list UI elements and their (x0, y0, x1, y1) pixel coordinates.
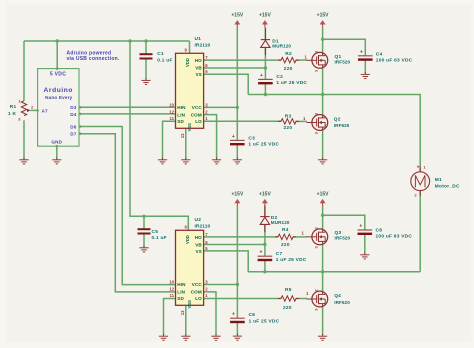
ground (Q2 source) (318, 158, 327, 164)
svg-text:C8: C8 (376, 227, 383, 233)
U2 pin numbers (169, 225, 208, 316)
ground (Arduino) (52, 158, 61, 164)
svg-text:+15V: +15V (259, 13, 271, 19)
ground (U2 COM) (211, 334, 220, 340)
junction U2 5V / C5 (142, 215, 145, 218)
svg-text:1 uF 25 VDC: 1 uF 25 VDC (249, 318, 280, 324)
wire Arduino D7 to U2 LIN (79, 134, 176, 292)
svg-text:via USB connection.: via USB connection. (67, 56, 120, 62)
wire +15V to D2 cathode (264, 206, 266, 216)
svg-text:COM: COM (191, 112, 202, 117)
ground (R1) (19, 158, 28, 164)
svg-text:LIN: LIN (177, 112, 185, 117)
wire C2 bottom to bridge A rail (264, 83, 266, 94)
svg-text:U1: U1 (195, 36, 202, 42)
svg-text:HO: HO (195, 235, 202, 240)
svg-text:D4: D4 (70, 112, 77, 117)
wire U1 LO to R3 (204, 120, 281, 122)
wire U1 VS to bridge A rail (204, 74, 249, 94)
junction 5V rail / C1 (144, 39, 147, 42)
svg-text:D6: D6 (70, 124, 77, 129)
wire tap to C8 (323, 215, 365, 230)
wire bridge A rail to motor + (248, 95, 420, 172)
capacitor C8 (358, 224, 373, 234)
power +15V (U1 VCC) (231, 13, 243, 28)
svg-text:0.1 uF: 0.1 uF (157, 57, 172, 63)
wire C7 bottom to bridge B rail (264, 260, 266, 272)
svg-text:Nano Every: Nano Every (45, 95, 73, 100)
capacitor C7 (258, 250, 273, 260)
svg-text:2: 2 (415, 194, 417, 198)
wire U1 HO to R2 (204, 59, 281, 61)
wire C4 bottom to GND (364, 60, 366, 73)
svg-text:LIN: LIN (177, 289, 185, 294)
wire bridge B rail (248, 271, 420, 273)
svg-text:10: 10 (169, 102, 174, 107)
svg-text:+: + (359, 224, 362, 230)
junction C2 / bridge A rail (264, 93, 267, 96)
wire U2 COM to GND (204, 292, 216, 335)
junction 5V rail / Arduino feed (56, 39, 59, 42)
wire D2 anode to VB node to C7 top (264, 224, 266, 256)
op-amp driver U2 IR2110 body (176, 230, 204, 305)
U1 pin numbers (169, 48, 208, 139)
Arduino Nano Every sheet (38, 69, 79, 147)
ground (U2 VSS) (181, 334, 190, 340)
ground (U1 VSS) (181, 158, 190, 164)
ground (C5) (139, 246, 148, 252)
svg-text:1 K: 1 K (8, 111, 17, 117)
svg-text:5 VDC: 5 VDC (50, 72, 66, 78)
svg-text:HO: HO (195, 58, 202, 63)
wire U2 VCC to +15V node (204, 284, 238, 286)
wire U2 VS to bridge B rail (204, 251, 249, 272)
junction 5V rail / U2 feed (128, 39, 131, 42)
wire motor - down to bridge B rail (419, 191, 421, 272)
capacitor C2 (258, 73, 273, 83)
svg-text:HIN: HIN (177, 282, 186, 287)
svg-text:R2: R2 (285, 51, 292, 57)
svg-text:VS: VS (195, 72, 201, 77)
wire C1 bottom to GND (145, 59, 147, 80)
svg-text:SD: SD (177, 119, 184, 124)
svg-text:+: + (260, 73, 263, 79)
svg-text:Arduino: Arduino (44, 87, 73, 94)
svg-text:D7: D7 (70, 132, 77, 137)
svg-text:+: + (417, 164, 420, 170)
svg-text:VCC: VCC (192, 282, 203, 287)
svg-text:220: 220 (283, 305, 292, 311)
wire U2 SD to GND (164, 299, 176, 336)
transistor Q2 IRF520 (307, 112, 328, 134)
ground (U1 SD) (158, 158, 167, 164)
op-amp driver U1 IR2110 body (176, 53, 204, 128)
U2 pin names (177, 235, 202, 309)
svg-text:220: 220 (284, 125, 293, 131)
wire tap to C4 (323, 39, 366, 56)
svg-text:IRF520: IRF520 (334, 300, 350, 305)
wire U1 VB to bootstrap node (204, 67, 266, 69)
transistor Q3 IRF520 (307, 226, 328, 248)
svg-text:11: 11 (169, 116, 174, 121)
wire U1 VSS pin 13 to GND (185, 128, 187, 158)
wire Q1 source to Q2 drain (322, 68, 324, 115)
svg-text:C1: C1 (157, 51, 164, 57)
potentiometer R1 1K (18, 99, 34, 122)
resistor R3 220 (278, 119, 299, 124)
svg-text:11: 11 (169, 293, 174, 298)
motor M1 Motor_DC (411, 164, 430, 199)
svg-text:13: 13 (180, 310, 185, 315)
svg-text:IR2110: IR2110 (195, 42, 211, 48)
wire U2 VB to bootstrap node (204, 244, 265, 246)
wire 5V rail to R1 top (23, 41, 25, 101)
wire Arduino GND pin down (56, 146, 58, 158)
ground (U1 COM) (212, 158, 221, 164)
resistor R5 220 (278, 296, 299, 301)
svg-text:1 uF 25 VDC: 1 uF 25 VDC (248, 141, 279, 147)
svg-text:R1: R1 (10, 104, 17, 110)
svg-text:C2: C2 (276, 74, 283, 80)
svg-text:U2: U2 (195, 217, 202, 223)
svg-text:VSS: VSS (187, 300, 192, 309)
transistor Q1 IRF520 (307, 50, 328, 72)
wire C6 bottom to GND (236, 322, 238, 335)
wire U1 COM to GND (204, 115, 217, 159)
svg-text:D3: D3 (70, 105, 77, 110)
wire C5 bottom to GND (143, 234, 145, 247)
junction Q3-Q4 midpoint (321, 270, 324, 273)
svg-text:LO: LO (195, 119, 202, 124)
svg-text:VDD: VDD (185, 235, 190, 244)
capacitor C3 (230, 134, 245, 144)
svg-text:R3: R3 (285, 113, 292, 119)
capacitor C4 (358, 49, 373, 59)
svg-text:220: 220 (281, 242, 290, 248)
svg-text:+15V: +15V (259, 191, 271, 197)
wire R4 to Q3 gate (293, 236, 307, 238)
capacitor C5 0.1uF (138, 229, 151, 233)
ground (C1) (141, 78, 150, 84)
ground (Q4 source) (318, 334, 327, 340)
svg-text:C5: C5 (152, 229, 159, 235)
svg-text:+: + (232, 312, 235, 318)
Arduino pin end dots (79, 106, 82, 109)
diode D2 MUR120 (260, 205, 269, 232)
wire +15V to Q3 drain (322, 206, 324, 229)
svg-text:VS: VS (195, 249, 201, 254)
wire rail to C1 top (145, 41, 147, 54)
ground (C3) (233, 158, 242, 164)
svg-text:10: 10 (169, 279, 174, 284)
power +15V (Q3 drain) (317, 191, 329, 206)
svg-text:C3: C3 (248, 136, 255, 142)
svg-text:C6: C6 (249, 312, 256, 318)
svg-text:+15V: +15V (317, 191, 329, 197)
U1 pin names (177, 58, 202, 132)
svg-text:M1: M1 (435, 177, 442, 183)
wire U2 LO to R5 (204, 298, 281, 300)
power +15V (Q1 drain) (317, 13, 329, 28)
ground (C8) (360, 253, 369, 259)
svg-text:220: 220 (284, 66, 293, 72)
diode D1 MUR120 (261, 28, 270, 55)
svg-text:+: + (360, 49, 363, 55)
svg-text:100 uF 63 VDC: 100 uF 63 VDC (376, 233, 413, 239)
wire 5V top rail (24, 40, 190, 42)
svg-text:GND: GND (51, 139, 62, 144)
svg-text:Motor_DC: Motor_DC (435, 183, 460, 189)
junction U2 VB node (263, 243, 266, 246)
junction U1 VCC node (236, 106, 239, 109)
wire 5V rail to Arduino 5VDC pin (56, 41, 58, 69)
svg-text:0.1 uF: 0.1 uF (152, 235, 167, 241)
wire +15V to Q1 drain (322, 28, 324, 53)
wire rail down to U1 VDD pin 9 (189, 41, 191, 53)
transistor Q4 IRF520 (307, 289, 328, 311)
resistor R2 220 (278, 57, 299, 62)
wire R5 to Q4 gate (296, 298, 307, 300)
svg-text:R4: R4 (282, 227, 289, 233)
svg-text:IR2110: IR2110 (195, 223, 211, 229)
capacitor C6 (230, 312, 245, 322)
wire C8 bottom to GND (364, 234, 366, 254)
svg-text:IRF520: IRF520 (334, 123, 350, 128)
power +15V (D2) (259, 191, 271, 206)
wire tap to C5 top (143, 216, 145, 229)
wire U1 VCC to +15V node (204, 106, 238, 108)
wire Q2 source to GND (322, 130, 324, 159)
wire C3 bottom to GND (236, 145, 238, 159)
svg-text:12: 12 (169, 287, 174, 292)
svg-text:VDD: VDD (185, 58, 190, 67)
wire Arduino D3 to U1 HIN (79, 106, 176, 108)
wire +15V to D1 cathode (264, 28, 266, 40)
svg-text:VCC: VCC (192, 105, 203, 110)
svg-text:+15V: +15V (231, 13, 243, 19)
wire U2 VSS pin 13 to GND (185, 305, 187, 335)
svg-text:R5: R5 (285, 287, 292, 293)
svg-text:1 uF 25 VDC: 1 uF 25 VDC (276, 80, 307, 86)
wire Arduino D6 to U2 HIN (79, 127, 176, 285)
svg-text:+: + (232, 134, 235, 140)
wire +15V down through VCC node to C6 (236, 206, 238, 318)
svg-text:Q2: Q2 (334, 116, 341, 122)
resistor R4 220 (275, 234, 296, 239)
wire R2 to Q1 gate (296, 59, 307, 61)
svg-text:1: 1 (424, 166, 426, 170)
svg-text:12: 12 (169, 110, 174, 115)
wire R3 to Q2 gate (296, 120, 308, 122)
svg-text:VSS: VSS (187, 123, 192, 132)
svg-text:IRF520: IRF520 (335, 236, 351, 241)
svg-text:VB: VB (195, 66, 202, 71)
svg-text:LO: LO (195, 296, 202, 301)
ground (U2 SD) (159, 334, 168, 340)
wire Q3 source to Q4 drain (322, 244, 324, 291)
wire +15V down through VCC node to C3 (236, 28, 238, 141)
svg-text:+15V: +15V (317, 13, 329, 19)
note: Arduino powered via USB (67, 51, 120, 62)
wire Q4 source to GND (322, 307, 324, 335)
svg-text:1 uF 25 VDC: 1 uF 25 VDC (276, 257, 307, 263)
ground (C4) (361, 72, 370, 78)
junction Q3 drain / C8 tap (321, 214, 324, 217)
svg-text:13: 13 (180, 133, 185, 138)
wire U2 HO to R4 (204, 236, 278, 238)
junction U2 VCC node (236, 283, 239, 286)
power +15V (D1) (259, 13, 271, 28)
svg-text:+: + (259, 250, 262, 256)
wire D1 anode to VB node to C2 top (264, 47, 266, 79)
junction Q1 drain / C4 tap (321, 38, 324, 41)
wire R1 wiper to A7 (31, 109, 38, 111)
svg-text:VB: VB (195, 243, 202, 248)
ground (C6) (233, 334, 242, 340)
wire rail down to U2 VDD pin 9 (130, 41, 188, 230)
svg-text:+15V: +15V (231, 191, 243, 197)
svg-text:A7: A7 (42, 108, 49, 113)
svg-text:IRF520: IRF520 (335, 60, 351, 65)
svg-text:100 uF 63 VDC: 100 uF 63 VDC (376, 58, 413, 64)
svg-text:Q4: Q4 (334, 293, 341, 299)
capacitor C1 0.1uF (140, 54, 153, 58)
junction Q1-Q2 midpoint (321, 93, 324, 96)
wire R1 bottom to GND (23, 120, 25, 158)
wire Arduino D4 to U1 LIN (79, 113, 176, 115)
svg-text:MUR120: MUR120 (272, 44, 291, 49)
svg-text:C4: C4 (376, 52, 383, 58)
wire U1 SD to GND (163, 121, 176, 158)
junction U1 VB node (264, 66, 267, 69)
svg-text:HIN: HIN (177, 105, 186, 110)
svg-text:C7: C7 (276, 251, 283, 257)
junction C7 / bridge B rail (263, 270, 266, 273)
power +15V (U2 VCC) (231, 191, 243, 206)
svg-text:MUR120: MUR120 (271, 220, 290, 225)
svg-text:COM: COM (191, 289, 202, 294)
svg-text:SD: SD (177, 296, 184, 301)
